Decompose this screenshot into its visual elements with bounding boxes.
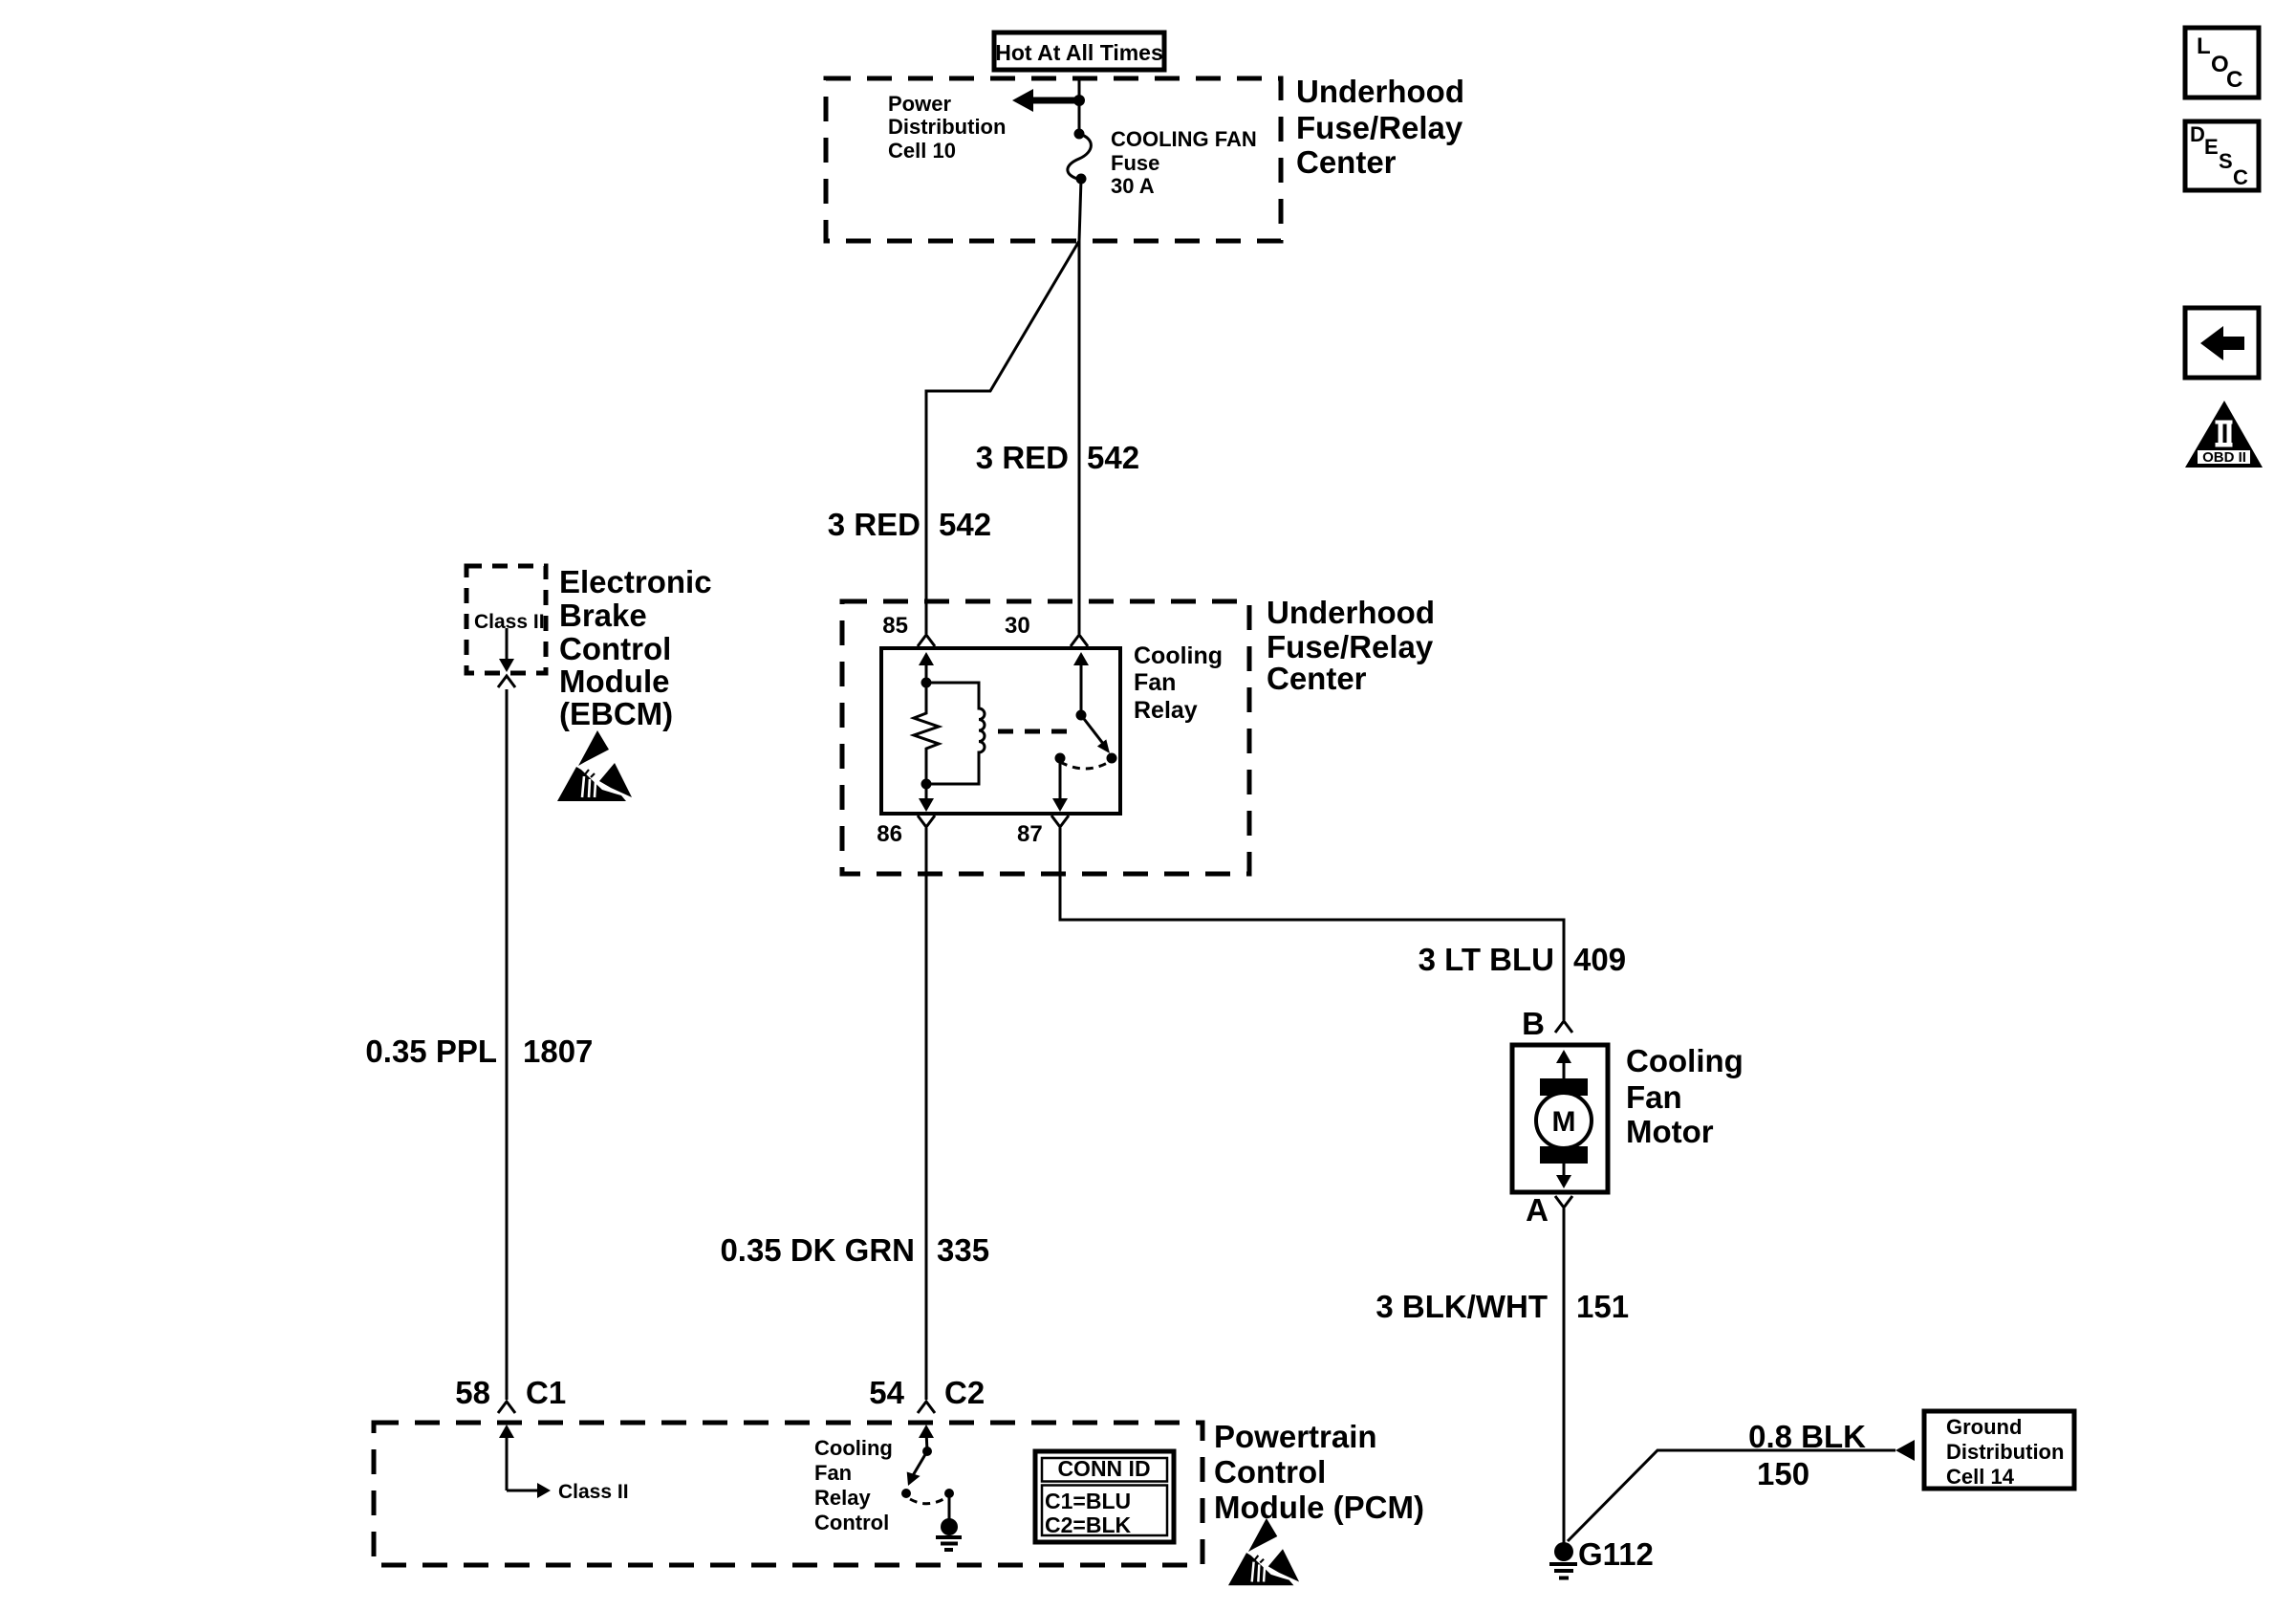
svg-text:Cooling: Cooling [1134,642,1223,669]
svg-text:(EBCM): (EBCM) [559,696,673,731]
svg-text:409: 409 [1573,942,1626,977]
svg-text:542: 542 [939,507,991,542]
svg-text:Fan: Fan [1134,669,1176,696]
OBD II triangle icon [2185,401,2263,468]
ESD sensitivity symbol (PCM) [1228,1518,1299,1585]
relay switch fixed contact node [1076,710,1087,721]
svg-text:CONN ID: CONN ID [1057,1456,1150,1481]
svg-text:A: A [1526,1192,1549,1228]
svg-text:58: 58 [455,1375,490,1410]
DESC icon box [2185,121,2259,190]
svg-text:85: 85 [882,613,908,639]
svg-text:Class II: Class II [474,611,545,633]
label 3 BLK/WHT 151 [1375,1289,1629,1324]
svg-text:L: L [2197,33,2211,59]
relay coil top node [921,678,932,688]
label Underhood Fuse/Relay Center (relay) [1267,595,1435,696]
svg-text:D: D [2190,122,2205,146]
relay pin 87 node [1055,753,1066,764]
junction node at fuse top [1073,95,1085,106]
svg-text:OBD II: OBD II [2202,449,2246,466]
label Power Distribution Cell 10 [888,92,1006,163]
wire EBCM to PCM 58 (PPL) [506,689,509,1400]
svg-text:3 LT BLU: 3 LT BLU [1419,942,1554,977]
connector chevron pin 86 [918,816,935,827]
svg-text:Control: Control [1214,1454,1326,1490]
svg-text:3 RED: 3 RED [976,440,1069,475]
svg-text:Cooling: Cooling [1626,1043,1744,1078]
PCM driver switch top node [922,1447,932,1456]
back arrow icon box [2185,308,2259,378]
svg-text:151: 151 [1576,1289,1629,1324]
motor internal arrow in [1556,1050,1571,1080]
cooling fan relay box [881,648,1120,814]
svg-text:Hot At All Times: Hot At All Times [995,40,1163,65]
relay pin 30 internal arrow [1073,652,1089,715]
EBCM dashed box [466,566,546,673]
PCM driver switch contact node [901,1489,911,1498]
PCM internal ground [936,1493,962,1550]
arrowhead into Ground Distribution [1895,1440,1915,1461]
label 0.35 PPL 1807 [365,1033,593,1069]
Underhood Fuse/Relay Center dashed box (top) [826,78,1281,241]
svg-text:Class II: Class II [558,1481,629,1503]
PCM driver switch dashed travel arc [910,1498,945,1504]
svg-text:C2: C2 [944,1375,985,1410]
PCM driver output node [944,1489,954,1498]
LOC icon box [2185,28,2259,98]
svg-text:Relay: Relay [814,1486,871,1510]
svg-text:Control: Control [814,1511,889,1534]
svg-text:Fan: Fan [814,1461,852,1485]
motor brushes and armature M [1536,1078,1592,1164]
label 0.8 BLK 150 [1748,1419,1866,1491]
svg-text:Module: Module [559,664,669,699]
svg-text:G112: G112 [1578,1536,1654,1572]
wire relay 87 to motor B (LT BLU) [1060,828,1564,1020]
label 3 RED 542 (right branch) [976,440,1139,475]
svg-text:Cell 14: Cell 14 [1946,1465,2015,1489]
svg-text:Center: Center [1296,144,1397,180]
wire motor A to ground G112 [1563,1208,1566,1543]
svg-text:Fuse/Relay: Fuse/Relay [1267,629,1434,664]
svg-text:30: 30 [1005,613,1030,639]
svg-text:Underhood: Underhood [1296,74,1464,109]
fuse COOLING FAN 30 A [1068,129,1092,185]
svg-text:0.8 BLK: 0.8 BLK [1748,1419,1866,1454]
PCM driver switch arm [907,1451,927,1486]
svg-text:E: E [2204,135,2219,159]
wire branch diagonal to relay pin 85 [926,241,1079,634]
svg-text:3 BLK/WHT: 3 BLK/WHT [1375,1289,1548,1324]
svg-text:Control: Control [559,631,671,666]
svg-text:Fuse/Relay: Fuse/Relay [1296,110,1463,145]
svg-text:S: S [2219,149,2233,173]
connector chevron A [1555,1196,1572,1207]
label 3 RED 542 (left branch) [828,507,991,542]
svg-text:Motor: Motor [1626,1114,1714,1149]
wire fuse to box edge [1079,179,1081,241]
Underhood Fuse/Relay Center dashed box (relay) [842,601,1249,874]
label Electronic Brake Control Module (EBCM) [559,564,712,731]
svg-text:335: 335 [937,1232,989,1268]
svg-text:C1=BLU: C1=BLU [1045,1489,1131,1513]
connector chevron below EBCM [498,676,515,687]
wire fuse output to relay pin 30 [1078,241,1081,634]
wire G112 to Ground Distribution [1568,1450,1895,1541]
wire from Hot At All Times into fuse box [1078,78,1081,133]
connector chevron pin 85 [918,635,935,646]
svg-text:Fuse: Fuse [1111,151,1159,175]
label 3 LT BLU 409 [1419,942,1626,977]
svg-text:Fan: Fan [1626,1079,1682,1115]
ground G112 symbol [1549,1542,1577,1578]
svg-text:0.35 DK GRN: 0.35 DK GRN [720,1232,915,1268]
label COOLING FAN Fuse 30 A [1111,127,1257,198]
svg-text:Distribution: Distribution [1946,1440,2064,1464]
svg-text:C2=BLK: C2=BLK [1045,1512,1131,1537]
relay pin 86 internal arrow [919,784,934,812]
svg-text:Distribution: Distribution [888,115,1006,139]
cooling fan motor box [1512,1045,1608,1192]
label 0.35 DK GRN 335 [720,1232,989,1268]
svg-text:Underhood: Underhood [1267,595,1435,630]
svg-text:Cooling: Cooling [814,1436,893,1460]
svg-text:30 A: 30 A [1111,174,1155,198]
Ground Distribution Cell 14 box [1924,1411,2074,1489]
svg-text:54: 54 [869,1375,904,1410]
relay coil-to-switch dashed link [998,729,1074,734]
motor internal arrow out [1556,1164,1571,1188]
relay pin 85 internal arrow [919,652,934,684]
relay switch moving contact node [1107,753,1117,764]
relay coil (parallel winding) [926,683,985,784]
svg-text:Center: Center [1267,661,1367,696]
svg-text:M: M [1552,1106,1576,1138]
connector chevron pin 30 [1071,635,1088,646]
svg-text:COOLING FAN: COOLING FAN [1111,127,1257,151]
relay switch arm [1081,715,1110,753]
svg-text:86: 86 [877,821,902,847]
svg-text:Powertrain: Powertrain [1214,1419,1377,1454]
Hot At All Times flag box [994,33,1164,70]
label Cooling Fan Motor [1626,1043,1744,1149]
ESD sensitivity symbol (EBCM) [557,730,632,801]
svg-text:Power: Power [888,92,951,116]
svg-text:C1: C1 [526,1375,566,1410]
svg-text:3 RED: 3 RED [828,507,921,542]
label Underhood Fuse/Relay Center (top) [1296,74,1464,180]
svg-text:C: C [2226,67,2242,93]
svg-text:B: B [1522,1006,1545,1041]
svg-text:150: 150 [1757,1456,1809,1491]
svg-text:Module (PCM): Module (PCM) [1214,1490,1424,1525]
PCM Class II branch arrow [507,1483,551,1498]
svg-text:Relay: Relay [1134,697,1198,724]
svg-text:1807: 1807 [523,1033,593,1069]
connector chevron C2 [918,1402,935,1413]
svg-text:Cell 10: Cell 10 [888,139,956,163]
relay pin 87 internal arrow [1052,760,1068,812]
connector chevron pin 87 [1051,816,1069,827]
svg-text:Brake: Brake [559,598,647,633]
label Cooling Fan Relay [1134,642,1223,724]
relay coil bottom node [921,779,932,790]
arrow to Power Distribution Cell 10 [1012,89,1079,112]
PCM dashed box [374,1423,1202,1565]
PCM pin 54 internal arrow [919,1425,934,1451]
connector chevron C1 [498,1402,515,1413]
PCM pin 58 internal arrow [499,1425,514,1490]
CONN ID table [1035,1451,1174,1542]
svg-text:542: 542 [1087,440,1139,475]
connector chevron B [1555,1021,1572,1033]
relay resistor [914,683,939,782]
wire relay 86 to PCM 54 (DK GRN) [925,828,928,1400]
svg-text:C: C [2233,165,2248,189]
svg-text:Electronic: Electronic [559,564,712,599]
svg-text:87: 87 [1017,821,1043,847]
label Powertrain Control Module (PCM) [1214,1419,1424,1525]
EBCM internal arrow down [499,628,514,672]
svg-text:0.35 PPL: 0.35 PPL [365,1033,497,1069]
relay switch dashed travel arc [1060,762,1109,769]
svg-text:Ground: Ground [1946,1415,2022,1439]
label Cooling Fan Relay Control [814,1436,893,1534]
